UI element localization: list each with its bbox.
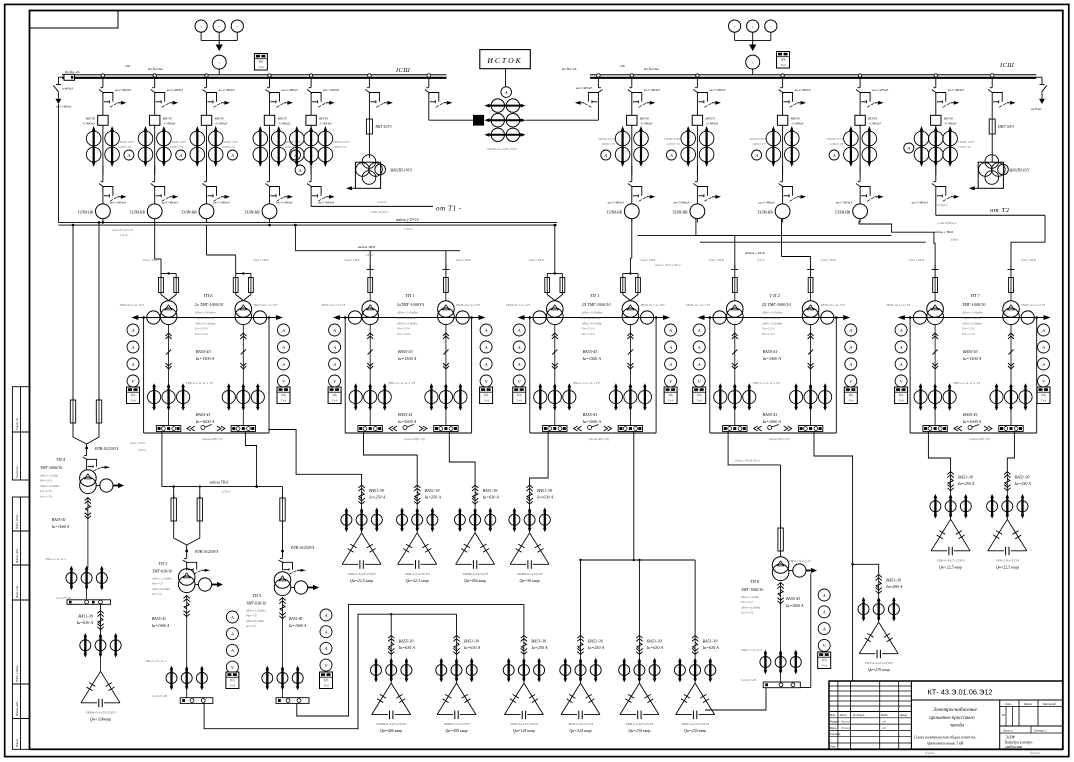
svg-text:А: А: [126, 153, 130, 158]
svg-text:ТВЛМ-10УЗ: ТВЛМ-10УЗ: [958, 140, 975, 144]
svg-text:вв-С/4Юв3: вв-С/4Юв3: [167, 88, 183, 92]
svg-text:Iн=1500 А: Iн=1500 А: [195, 356, 215, 361]
svg-text:Iн=1500 А: Iн=1500 А: [582, 356, 602, 361]
svg-text:вв-С/4Юв3: вв-С/4Юв3: [318, 201, 334, 205]
svg-text:А: А: [899, 362, 903, 367]
svg-text:А: А: [668, 345, 672, 350]
TP8 LV loop wire: [810, 573, 812, 687]
svg-text:-С/4Юв3: -С/4Юв3: [215, 122, 228, 126]
svg-text:v: v: [200, 24, 202, 29]
svg-text:ТВЛМ-10УЗ: ТВЛМ-10УЗ: [118, 140, 135, 144]
TP4 feeder down: [87, 497, 89, 519]
svg-text:А: А: [899, 328, 903, 333]
svg-text:-С/4Юв3: -С/4Юв3: [319, 122, 332, 126]
svg-text:ТчА: ТчА: [780, 63, 787, 67]
svg-text:ВА55-41: ВА55-41: [763, 412, 778, 417]
Т П 2 LV bus with CTs: [703, 317, 846, 319]
ISTOK source box: [480, 50, 531, 69]
capacitor bank 1 upper row: [361, 485, 363, 505]
svg-text:ТЗЛМ-НВ: ТЗЛМ-НВ: [244, 211, 260, 215]
svg-text:Iн=250 А: Iн=250 А: [957, 481, 975, 486]
svg-text:-С/4Юв3: -С/4Юв3: [640, 122, 653, 126]
bus II left end breaker: [597, 74, 601, 78]
svg-text:А: А: [230, 648, 234, 653]
svg-text:А: А: [517, 328, 521, 333]
svg-text:А: А: [1041, 328, 1045, 333]
svg-text:Iн=630 А: Iн=630 А: [646, 645, 664, 650]
svg-text:А: А: [669, 153, 673, 158]
svg-text:ЗНОЛП-6У3: ЗНОЛП-6У3: [1009, 169, 1029, 173]
svg-text:вв-С/4Юв3: вв-С/4Юв3: [872, 88, 888, 92]
svg-text:ПКТ-10У3: ПКТ-10У3: [997, 125, 1014, 129]
top-left corner table: [30, 11, 119, 29]
svg-text:ТМГ-1600/10: ТМГ-1600/10: [40, 465, 62, 470]
svg-text:Qн=450 квар: Qн=450 квар: [445, 728, 467, 733]
svg-text:Iн=630 А: Iн=630 А: [482, 495, 500, 500]
capacitor bank right pair 2: [1006, 471, 1008, 491]
svg-text:вв-С/4Юв3: вв-С/4Юв3: [277, 201, 293, 205]
svg-text:А: А: [517, 362, 521, 367]
svg-text:ВА55-41: ВА55-41: [52, 517, 66, 522]
svg-text:ВП/Т0: ВП/Т0: [163, 117, 172, 121]
svg-text:А: А: [822, 610, 826, 615]
svg-text:-С/4Юв3: -С/4Юв3: [163, 122, 176, 126]
svg-text:ТВЛМ-10-2х(30-19)УЗ: ТВЛМ-10-2х(30-19)УЗ: [487, 147, 518, 151]
svg-text:ТВЕ-2-1-11-11-1: ТВЕ-2-1-11-11-1: [45, 557, 66, 561]
svg-text:ВА51-39: ВА51-39: [1015, 475, 1031, 480]
ТП 1 feeders down: [369, 325, 371, 386]
svg-text:ВА55-41: ВА55-41: [196, 412, 211, 417]
svg-text:ВП/Т0: ВП/Т0: [86, 117, 95, 121]
ТП 6 LV switchboard: [156, 426, 180, 432]
svg-text:2шт у ТВ-Б: 2шт у ТВ-Б: [909, 258, 924, 262]
feeder II-4: [858, 74, 861, 77]
capacitor bank lower row 5: [638, 635, 640, 655]
svg-text:завода: завода: [949, 724, 965, 729]
title block outline: [829, 681, 1063, 749]
ТП 6 transformer 2: [235, 301, 252, 318]
capacitor bank 2 upper row: [416, 485, 418, 505]
svg-text:ВП/Т0: ВП/Т0: [705, 117, 714, 121]
svg-text:-С/4Юв3: -С/4Юв3: [868, 122, 881, 126]
ZNOLP voltage transformer right: [991, 134, 993, 162]
svg-text:ТВЛЗ-10-1-11-1УЗ: ТВЛЗ-10-1-11-1УЗ: [456, 303, 480, 307]
svg-text:А: А: [668, 328, 672, 333]
svg-text:ТВЛЗ-10-1-11-1УЗ: ТВЛЗ-10-1-11-1УЗ: [640, 303, 664, 307]
svg-text:ВА51-39: ВА51-39: [78, 614, 94, 619]
ТП 1 room outline: [344, 318, 346, 434]
svg-text:2шт у ТВ-Б: 2шт у ТВ-Б: [143, 258, 158, 262]
feeder II-2: [696, 74, 699, 77]
svg-text:ТЗЛМ-НВ: ТЗЛМ-НВ: [672, 211, 688, 215]
ТП 6 room outline: [143, 318, 145, 434]
capacitor bank lower row 4: [580, 635, 582, 655]
svg-text:2шт у ТВ-Б: 2шт у ТВ-Б: [253, 258, 268, 262]
svg-text:2Х ТМГ-1000/10: 2Х ТМГ-1000/10: [762, 302, 792, 307]
svg-text:А: А: [822, 626, 826, 631]
feeder I-4: [268, 74, 271, 77]
svg-text:в-4Юв3: в-4Юв3: [62, 87, 73, 91]
svg-text:2шт у ТВ-Б: 2шт у ТВ-Б: [709, 258, 724, 262]
svg-text:Инв.№: Инв.№: [15, 739, 19, 748]
svg-text:ВП/Т0: ВП/Т0: [319, 117, 328, 121]
svg-text:Iн=1600 А: Iн=1600 А: [785, 603, 804, 608]
svg-text:А: А: [298, 168, 302, 173]
svg-text:ВП/Т0: ВП/Т0: [640, 117, 649, 121]
svg-text:1000/5 УЗ: 1000/5 УЗ: [118, 145, 132, 149]
svg-text:вв-С/4Юв3: вв-С/4Юв3: [795, 88, 811, 92]
svg-text:ВА55-43: ВА55-43: [786, 596, 800, 601]
svg-text:А: А: [332, 345, 336, 350]
svg-text:ВА51-39: ВА51-39: [425, 488, 441, 493]
svg-text:Wh: Wh: [848, 394, 853, 398]
fuse feeder PKT right: [990, 74, 994, 78]
TP5 riser cable with fuse: [282, 487, 284, 498]
svg-text:Wh: Wh: [230, 679, 235, 683]
svg-text:ВА51-39: ВА51-39: [483, 488, 499, 493]
svg-text:ТчА: ТчА: [668, 399, 675, 403]
left bus end box: [64, 74, 75, 80]
svg-text:вв-Юв1: вв-Юв1: [1031, 107, 1042, 111]
svg-text:Iн=1600 А: Iн=1600 А: [582, 419, 602, 424]
svg-text:(шина ЩО-70): (шина ЩО-70): [969, 437, 990, 441]
svg-text:ВП/Т0: ВП/Т0: [944, 117, 953, 121]
TP4 riser cables with fuses: [72, 225, 74, 400]
svg-text:Лист 2: Лист 2: [1002, 728, 1013, 732]
svg-text:ВП/Т0: ВП/Т0: [278, 117, 287, 121]
svg-text:ТЗЛМ-НВ: ТЗЛМ-НВ: [607, 211, 623, 215]
svg-text:№ докум.: № докум.: [852, 713, 865, 717]
svg-text:РЛВ-10/250УЗ: РЛВ-10/250УЗ: [94, 447, 118, 451]
svg-text:v: v: [734, 24, 736, 29]
TP3 LV switchboard: [180, 698, 213, 704]
incoming line from T1: [310, 198, 312, 206]
TP5 meter column: [320, 609, 332, 621]
svg-text:снабжения: снабжения: [1005, 745, 1022, 749]
feeder II-5 incoming from T2: [934, 74, 937, 77]
svg-text:А: А: [697, 328, 701, 333]
svg-text:т: т: [1002, 713, 1005, 717]
TP5 transformer: [274, 572, 291, 589]
svg-text:ТВЕ-2-1-11-11-1 УЗ: ТВЕ-2-1-11-11-1 УЗ: [573, 381, 600, 385]
wire TP7 drops to right banks: [928, 432, 950, 472]
svg-text:2хТМГ-1000УЗ: 2хТМГ-1000УЗ: [397, 302, 424, 307]
title block grid: [910, 681, 912, 749]
svg-text:Wh: Wh: [1041, 394, 1046, 398]
svg-text:ТчА: ТчА: [483, 399, 490, 403]
svg-text:20в: 20в: [125, 64, 130, 68]
svg-text:ВА55-43: ВА55-43: [398, 349, 413, 354]
ТП 1 meter column right: [480, 324, 492, 336]
risers to TP1 transformers: [369, 251, 371, 270]
svg-text:1000/5 УЗ: 1000/5 УЗ: [601, 142, 615, 146]
capacitor bank lower row 1: [390, 635, 392, 655]
svg-text:Iн=1000 А: Iн=1000 А: [151, 623, 170, 628]
meter box left: [254, 54, 267, 71]
svg-text:ТВЛЗ-10-1-11-1УЗ: ТВЛЗ-10-1-11-1УЗ: [321, 303, 345, 307]
wire TP mid right drop to lower banks: [581, 432, 634, 635]
svg-text:ТП 4: ТП 4: [56, 457, 66, 462]
ТП 6 meter column left: [127, 324, 139, 336]
svg-text:v: v: [752, 60, 754, 65]
svg-text:А: А: [848, 345, 852, 350]
svg-text:Iн=250 А: Iн=250 А: [424, 495, 442, 500]
svg-text:вв-С/4Юв3: вв-С/4Юв3: [323, 88, 339, 92]
svg-text:А: А: [324, 646, 328, 651]
corridor branch B2: [294, 225, 296, 251]
svg-text:А: А: [697, 345, 701, 350]
svg-text:ТВЕ-2-1-11-11-1: ТВЕ-2-1-11-11-1: [741, 648, 762, 652]
TP8 LV side CT: [793, 564, 806, 577]
svg-text:Яч.№1-2А: Яч.№1-2А: [561, 67, 577, 71]
feeder to bus coupler: [427, 74, 431, 78]
svg-text:Кафедра электро-: Кафедра электро-: [1004, 741, 1034, 745]
title block right section: [999, 700, 1001, 749]
svg-text:кабель у ТВ-Б: кабель у ТВ-Б: [934, 230, 953, 234]
svg-text:Масштаб: Масштаб: [1042, 702, 1056, 706]
svg-text:Подп.: Подп.: [880, 713, 889, 717]
svg-text:ВА55-41: ВА55-41: [763, 349, 778, 354]
svg-text:ТчА: ТчА: [848, 399, 855, 403]
svg-text:ТчА: ТчА: [281, 399, 288, 403]
svg-text:1000/5 УЗ: 1000/5 УЗ: [752, 142, 766, 146]
svg-text:Справ. №: Справ. №: [15, 418, 19, 430]
svg-text:Qн=270 квар: Qн=270 квар: [868, 667, 890, 672]
svg-text:ИСТОК: ИСТОК: [486, 56, 522, 65]
svg-text:Масса: Масса: [1023, 702, 1033, 706]
capacitor bank right pair 1: [950, 471, 952, 491]
svg-text:ТчА: ТчА: [821, 664, 828, 668]
svg-text:(1ВБт: (1ВБт: [950, 238, 959, 242]
right bus end outgoing breaker: [1036, 76, 1042, 78]
riser feeder I-2 to TP6 left transformer: [154, 222, 156, 259]
svg-text:А: А: [899, 345, 903, 350]
svg-text:ТМГ-1000/10: ТМГ-1000/10: [741, 587, 763, 592]
svg-text:Qн=128 квар: Qн=128 квар: [513, 728, 535, 733]
feeder II-1: [630, 74, 633, 77]
svg-text:ТчА: ТчА: [898, 399, 905, 403]
riser feeder II-4 to TP7 left transformer: [859, 221, 935, 270]
svg-text:вв-С/4Юв3: вв-С/4Юв3: [608, 201, 624, 205]
svg-text:ТчА: ТчА: [516, 399, 523, 403]
svg-text:ТВЕ-2-1-11-11-1 УЗ: ТВЕ-2-1-11-11-1 УЗ: [186, 381, 213, 385]
ТП 7 meter column right: [1038, 324, 1050, 336]
svg-text:РЛВ-10/250УЗ: РЛВ-10/250УЗ: [194, 550, 218, 554]
svg-text:А: А: [906, 146, 910, 151]
svg-text:1000/5 УЗ: 1000/5 УЗ: [830, 142, 844, 146]
ТП 1 contactor row at x=370: [349, 390, 362, 403]
coupler tie wire to bus II: [526, 119, 599, 121]
TP4 LV switchboard: [67, 600, 111, 605]
svg-text:А: А: [131, 362, 135, 367]
Т П 2 room outline: [709, 318, 711, 434]
TP3 contactor row: [166, 673, 177, 684]
svg-text:2шт у ТВ-Б: 2шт у ТВ-Б: [344, 258, 359, 262]
svg-text:ТП 8: ТП 8: [750, 579, 760, 584]
ТП 1 transformer 1: [547, 301, 564, 318]
svg-text:ТВЕ-2-1-11-11-1 УЗ: ТВЕ-2-1-11-11-1 УЗ: [388, 381, 415, 385]
svg-text:ТВЛМ-10УЗ: ТВЛМ-10УЗ: [664, 137, 681, 141]
svg-text:вв-С/4Юв3: вв-С/4Юв3: [110, 201, 126, 205]
ТП 1 contactor row at x=555: [534, 390, 547, 403]
wire TP6 switchboard to TV-B cable: [161, 432, 163, 487]
svg-text:Wh: Wh: [484, 394, 489, 398]
svg-text:ВА55-39: ВА55-39: [399, 638, 415, 643]
svg-text:А: А: [832, 153, 836, 158]
svg-text:ТП 7: ТП 7: [970, 293, 980, 298]
TP4 capacitor bank: [100, 604, 102, 610]
svg-text:ТВЕЗ-2 6(1)-1-1У: ТВЕЗ-2 6(1)-1-1У: [789, 559, 812, 563]
TP8 contactor row: [760, 657, 771, 668]
svg-text:ВА51-Ф: ВА51-Ф: [289, 616, 303, 621]
svg-text:Qн=36 квар: Qн=36 квар: [520, 578, 540, 583]
ТП 1 LV switchboard: [358, 426, 382, 432]
svg-text:А: А: [281, 345, 285, 350]
ТП 1 transformer 1: [362, 301, 379, 318]
wire TP mid left drop to bank: [530, 432, 549, 485]
ТП 6 feeders down: [168, 325, 170, 386]
svg-text:кабель у ТВ-Б: кабель у ТВ-Б: [745, 251, 765, 255]
svg-text:А: А: [517, 345, 521, 350]
svg-text:Iн=250 А: Iн=250 А: [1014, 481, 1032, 486]
ТП 1 LV bus with CTs: [523, 317, 666, 319]
svg-text:Изм: Изм: [829, 713, 835, 717]
Т П 2 transformer 2: [802, 301, 819, 318]
ТП 7 HV fuse bridges: [932, 269, 939, 271]
svg-text:А: А: [848, 362, 852, 367]
svg-text:А: А: [484, 328, 488, 333]
svg-text:1500/5 УЗ: 1500/5 УЗ: [958, 145, 972, 149]
ТП 6 transformer 1: [160, 301, 177, 318]
svg-text:Wh: Wh: [324, 679, 329, 683]
svg-text:А: А: [1041, 345, 1045, 350]
svg-text:ВП/Т0: ВП/Т0: [791, 117, 800, 121]
ТП 7 contactor row at x=935: [914, 390, 927, 403]
bus coupler CT stack: [491, 99, 504, 112]
capacitor bank 4 upper row: [529, 485, 531, 505]
svg-text:Iн=1500 А: Iн=1500 А: [762, 356, 782, 361]
svg-text:ТВЕ-2-1-11-11-1 УЗ: ТВЕ-2-1-11-11-1 УЗ: [753, 381, 780, 385]
svg-text:А: А: [332, 362, 336, 367]
svg-text:1000/5 УЗ: 1000/5 УЗ: [667, 142, 681, 146]
svg-text:вв-С/4Юв3: вв-С/4Юв3: [115, 88, 131, 92]
feeder I-5 incoming from T1: [309, 74, 312, 77]
svg-text:ТМГ-630/10: ТМГ-630/10: [152, 569, 172, 574]
wire TP2 left drop to TP8 feed: [728, 432, 781, 465]
svg-text:Т П 2: Т П 2: [769, 293, 780, 298]
ТП 1 transformer 2: [438, 301, 455, 318]
TP8 feeder down: [780, 582, 782, 604]
svg-text:-С/4Юв3: -С/4Юв3: [791, 122, 804, 126]
svg-text:А: А: [332, 328, 336, 333]
riser feeder II-3 to TP2 right transformer: [781, 219, 783, 257]
ТП 1 LV switchboard: [543, 426, 567, 432]
Т П 2 meter column left: [693, 324, 705, 336]
svg-text:Дата: Дата: [899, 713, 908, 717]
TP3 LV side CT: [198, 578, 211, 591]
svg-text:кабель ТВ-Б(1Юж: кабель ТВ-Б(1Юж: [735, 459, 760, 463]
svg-text:Схема электрическая общая сете: Схема электрическая общая сетей на-: [914, 735, 977, 740]
feeder I-1: [101, 74, 104, 77]
svg-text:А: А: [178, 153, 182, 158]
ТП 7 room outline: [909, 318, 911, 434]
svg-text:Wh: Wh: [781, 58, 786, 62]
svg-text:Инв.№ дубл: Инв.№ дубл: [15, 548, 19, 564]
svg-text:ТП 1: ТП 1: [590, 293, 599, 298]
Т П 2 HV fuse bridges: [731, 269, 738, 271]
svg-text:ТЗЛМ-НВ: ТЗЛМ-НВ: [78, 211, 94, 215]
svg-text:А: А: [1041, 362, 1045, 367]
svg-text:А: А: [484, 362, 488, 367]
TP4 LV side CT: [100, 479, 113, 492]
ТП 1 feeders down: [554, 325, 556, 386]
TP4 contactor row: [66, 573, 77, 584]
ТП 1 HV fuse bridges: [367, 269, 374, 271]
svg-text:ТчА: ТчА: [230, 684, 237, 688]
Т П 2 feeders down: [734, 325, 736, 386]
svg-text:от Т1 -: от Т1 -: [436, 205, 462, 213]
TP3 feeder down: [186, 595, 188, 617]
branch to mid-right bank: [853, 564, 879, 574]
wire TP1 right drop to bank: [449, 432, 475, 485]
coupler ammeter: [501, 87, 512, 98]
svg-text:вв-С/4Юв3: вв-С/4Юв3: [576, 86, 592, 90]
svg-text:ВП/Т0: ВП/Т0: [868, 117, 877, 121]
svg-text:ТВЛЗ-10-1-11-1УЗ: ТВЛЗ-10-1-11-1УЗ: [1021, 303, 1045, 307]
svg-text:Яч.№4-6А: Яч.№4-6А: [147, 67, 163, 71]
svg-text:(1Юж: (1Юж: [222, 490, 231, 494]
svg-text:Электроснабжение: Электроснабжение: [933, 706, 978, 713]
fuse feeder PKT left: [368, 74, 372, 78]
svg-text:ВА51-39: ВА51-39: [886, 577, 902, 582]
meter box right: [777, 52, 790, 69]
ТП 1 contactor row at x=446: [425, 390, 438, 403]
svg-text:А: А: [822, 593, 826, 598]
svg-text:ТП 6: ТП 6: [203, 293, 213, 298]
svg-text:Петров: Петров: [840, 727, 851, 730]
svg-text:v: v: [218, 24, 220, 29]
svg-text:Iн=630 А: Iн=630 А: [702, 645, 720, 650]
svg-text:Wh: Wh: [332, 394, 337, 398]
svg-text:(1Юж: (1Юж: [757, 258, 766, 262]
TP3 riser cables with fuses: [173, 487, 175, 498]
svg-text:кабель у ТЭ-10: кабель у ТЭ-10: [396, 218, 419, 222]
svg-text:Iн=1000 А: Iн=1000 А: [288, 623, 307, 628]
svg-text:1000/5 УЗ: 1000/5 УЗ: [170, 145, 184, 149]
svg-text:v: v: [236, 24, 238, 29]
svg-text:ТВЛМ-10УЗ: ТВЛМ-10УЗ: [170, 140, 187, 144]
svg-text:ТЗЛМ-НВ: ТЗЛМ-НВ: [129, 211, 145, 215]
svg-text:ТВЛЗ-10-1-11-1УЗ: ТВЛЗ-10-1-11-1УЗ: [506, 303, 530, 307]
svg-text:(-Юж: (-Юж: [120, 233, 128, 237]
svg-text:А: А: [281, 328, 285, 333]
svg-text:ТВЛЗ-10-1-11-1УЗ: ТВЛЗ-10-1-11-1УЗ: [821, 303, 845, 307]
svg-text:ВА55-41: ВА55-41: [398, 412, 413, 417]
svg-text:(шина ЩО-70): (шина ЩО-70): [769, 437, 790, 441]
svg-text:1ит(1): 1ит(1): [377, 200, 386, 204]
svg-text:2х ТМГ-1000/10: 2х ТМГ-1000/10: [195, 302, 224, 307]
ТП 7 transformer 1: [927, 301, 944, 318]
Т П 2 contactor row at x=811: [790, 390, 803, 403]
svg-text:ВА55-41: ВА55-41: [583, 412, 598, 417]
svg-text:А: А: [484, 345, 488, 350]
TP3 outgoing wire to lower banks: [204, 614, 456, 729]
svg-text:Яч.№4-6А: Яч.№4-6А: [643, 67, 659, 71]
svg-text:Листов 1: Листов 1: [1033, 728, 1047, 732]
svg-text:ВА51-39: ВА51-39: [647, 638, 663, 643]
feeder I-3: [205, 74, 208, 77]
svg-text:Взам. инв.: Взам. инв.: [15, 585, 19, 598]
